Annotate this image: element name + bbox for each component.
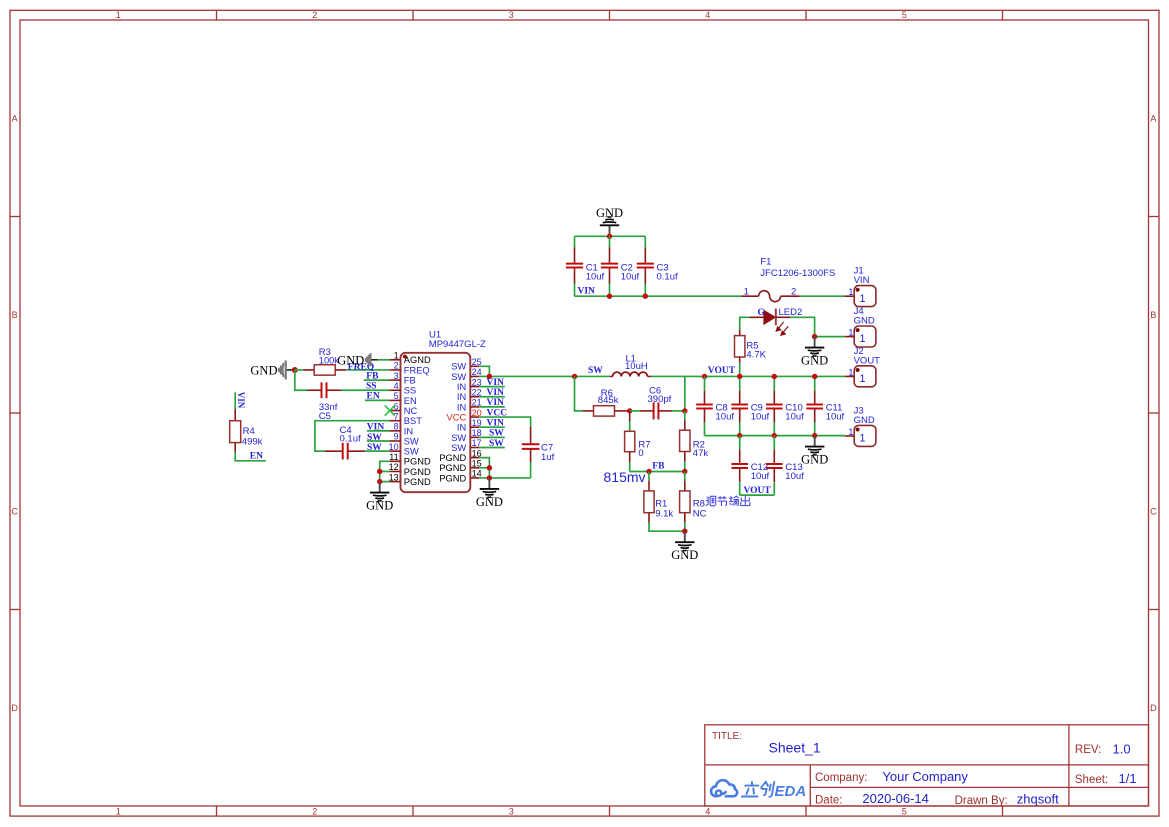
svg-text:390pf: 390pf [648, 394, 672, 405]
svg-text:10uf: 10uf [751, 412, 770, 423]
svg-text:VIN: VIN [487, 388, 505, 398]
svg-text:9.1k: 9.1k [655, 508, 673, 519]
svg-text:4: 4 [705, 10, 710, 20]
svg-text:BST: BST [404, 416, 422, 426]
svg-text:F1: F1 [760, 257, 771, 268]
U1 left pin 11 PGND [390, 460, 401, 462]
svg-text:GND: GND [801, 353, 828, 367]
diode LED2 [750, 316, 764, 318]
resistor R6 branch [575, 376, 584, 410]
svg-text:VIN: VIN [487, 419, 505, 429]
svg-text:SW: SW [451, 372, 466, 382]
svg-text:0.1uf: 0.1uf [657, 271, 678, 282]
svg-text:GND: GND [596, 206, 623, 220]
U1 right pin 24 SW [470, 375, 479, 377]
fuse F1 [741, 295, 758, 297]
svg-text:2: 2 [394, 361, 399, 371]
U1 right pin 20 VCC [470, 416, 479, 418]
svg-text:4: 4 [705, 807, 710, 817]
resistor R2 [684, 411, 686, 420]
wire pin20 VCC to C7 [479, 417, 530, 427]
svg-text:3: 3 [509, 807, 514, 817]
svg-text:PGND: PGND [439, 473, 466, 483]
svg-text:D: D [1150, 703, 1157, 713]
ground flag GND left of R3 [286, 369, 295, 371]
wire pin22 VIN stub [479, 396, 505, 398]
connector J4 [854, 326, 876, 347]
svg-text:REV:: REV: [1075, 744, 1101, 756]
U1 right pin 15 PGND [470, 467, 479, 469]
svg-text:LED2: LED2 [779, 307, 803, 318]
U1 right pin 22 IN [470, 396, 479, 398]
svg-text:VIN: VIN [487, 398, 505, 408]
capacitor C1 [574, 236, 576, 247]
U1 right pin 21 IN [470, 406, 479, 408]
svg-text:VIN: VIN [487, 378, 505, 388]
node LED GND junction [812, 334, 817, 339]
U1 left pin 6 NC [390, 410, 401, 412]
node SW-R6 junction [572, 374, 577, 379]
wire pin18 SW stub [479, 436, 505, 438]
svg-text:815mv: 815mv [604, 469, 646, 485]
U1 right pin 18 SW [470, 436, 479, 438]
connector J2 [854, 366, 876, 387]
U1 left pin 5 EN [390, 399, 401, 401]
ground GND below pin14 [488, 478, 490, 489]
wire SW rail L1 to J2 [651, 375, 845, 377]
node R1-R8 GND junction [682, 529, 687, 534]
svg-text:FREQ: FREQ [404, 365, 430, 375]
svg-text:1: 1 [116, 10, 121, 20]
svg-text:1: 1 [848, 427, 853, 438]
capacitor C12 [739, 436, 741, 450]
ground GND output bank [814, 436, 816, 447]
svg-text:11: 11 [389, 452, 398, 462]
text annotation tiao-jie-shu-chu [706, 496, 716, 506]
node R6-C6-R7 junction [627, 408, 632, 413]
capacitor C5 [295, 370, 307, 390]
U1 right pin 19 IN [470, 426, 479, 428]
svg-text:A: A [12, 113, 18, 123]
U1 left pin 10 SW [390, 450, 401, 452]
svg-text:MP9447GL-Z: MP9447GL-Z [429, 339, 486, 350]
resistor R1 [648, 472, 650, 481]
svg-text:GND: GND [366, 498, 393, 512]
svg-text:EDA: EDA [775, 783, 807, 800]
svg-text:GND: GND [854, 316, 875, 327]
wire pins 11-13 PGND [380, 461, 390, 481]
capacitor C6 [630, 410, 640, 412]
svg-text:FB: FB [652, 461, 665, 471]
wire output GND rail [705, 435, 846, 437]
wire C5 to pin4 SS [341, 389, 390, 391]
svg-text:VOUT: VOUT [854, 355, 881, 366]
wire FB rail [630, 471, 685, 473]
svg-text:EN: EN [250, 452, 263, 462]
node SW rail junction pin25 [487, 374, 492, 379]
svg-text:VCC: VCC [447, 412, 467, 422]
U1 right pin 25 SW [470, 365, 479, 367]
svg-text:SW: SW [588, 366, 603, 376]
U1 left pin 2 FREQ [390, 369, 401, 371]
svg-text:FB: FB [404, 376, 416, 386]
node VOUT label junction [702, 374, 707, 379]
wire C12-C13 bottom VOUT [740, 494, 775, 496]
wire pin19 VIN stub [479, 426, 505, 428]
U1 left pin 12 PGND [390, 470, 401, 472]
svg-text:SS: SS [366, 381, 377, 391]
svg-text:GND: GND [801, 452, 828, 466]
wire pin16 branch [479, 458, 489, 478]
ground GND below pin13 [379, 482, 381, 493]
svg-text:10uf: 10uf [826, 412, 845, 423]
svg-text:SW: SW [489, 429, 504, 439]
svg-text:Company:: Company: [815, 772, 867, 784]
svg-text:GND: GND [337, 353, 364, 367]
svg-text:GND: GND [476, 495, 503, 509]
svg-text:0: 0 [638, 448, 643, 459]
svg-text:0.1uf: 0.1uf [340, 433, 361, 444]
svg-text:1uf: 1uf [541, 452, 555, 463]
svg-text:SW: SW [451, 433, 466, 443]
svg-text:SW: SW [404, 436, 419, 446]
svg-text:PGND: PGND [439, 463, 466, 473]
connector J1 [854, 286, 876, 307]
ground GND top [609, 225, 611, 236]
svg-text:1: 1 [859, 333, 865, 345]
svg-text:SS: SS [404, 386, 416, 396]
svg-text:3: 3 [509, 10, 514, 20]
svg-text:1: 1 [394, 351, 399, 361]
wire C7 bottom to pin14 [479, 477, 530, 479]
svg-text:IN: IN [457, 423, 466, 433]
svg-text:EN: EN [404, 396, 417, 406]
wire pin15 stub link [479, 467, 489, 469]
svg-text:GND: GND [250, 364, 277, 378]
svg-text:TITLE:: TITLE: [712, 731, 742, 742]
U1 right pin 17 SW [470, 447, 479, 449]
svg-text:SW: SW [451, 362, 466, 372]
svg-text:1: 1 [859, 293, 865, 305]
svg-text:47k: 47k [693, 448, 709, 459]
svg-text:D: D [11, 703, 18, 713]
svg-text:4.7K: 4.7K [746, 350, 766, 361]
svg-text:5: 5 [902, 807, 907, 817]
svg-text:GND: GND [854, 415, 875, 426]
no-connect X pin6 [385, 406, 395, 416]
svg-text:13: 13 [389, 472, 399, 482]
node PGND junctions left [377, 469, 382, 474]
resistor R8 [684, 472, 686, 481]
svg-text:1: 1 [116, 807, 121, 817]
wire pin5 EN [365, 399, 390, 401]
svg-text:2020-06-14: 2020-06-14 [862, 791, 929, 806]
node VIN junctions [607, 294, 612, 299]
svg-text:JFC1206-1300FS: JFC1206-1300FS [760, 268, 835, 279]
wire R3 to pin2 FREQ [346, 369, 390, 371]
svg-text:VIN: VIN [236, 392, 246, 409]
svg-text:SW: SW [404, 447, 419, 457]
svg-text:SW: SW [489, 439, 504, 449]
U1 right pin 14 PGND [470, 477, 479, 479]
U1 left pin 13 PGND [390, 481, 401, 483]
svg-text:AGND: AGND [404, 355, 431, 365]
svg-text:12: 12 [389, 462, 399, 472]
svg-text:Sheet:: Sheet: [1075, 774, 1108, 786]
svg-text:IN: IN [404, 426, 413, 436]
svg-text:10uf: 10uf [751, 471, 770, 482]
svg-text:10uH: 10uH [625, 361, 648, 372]
resistor R5 [739, 329, 741, 335]
svg-text:9: 9 [394, 432, 399, 442]
U1 left pin 1 AGND [390, 359, 401, 361]
svg-text:EN: EN [367, 392, 380, 402]
wire VOUT drop to R2 [684, 376, 686, 410]
svg-text:8: 8 [394, 422, 399, 432]
capacitor C11 [814, 376, 816, 390]
svg-text:VCC: VCC [487, 408, 508, 418]
svg-text:Drawn By:: Drawn By: [955, 795, 1008, 807]
U1 right pin 23 IN [470, 386, 479, 388]
svg-text:10uf: 10uf [586, 271, 605, 282]
wire pin23 VIN stub [479, 386, 505, 388]
capacitor C2 [609, 236, 611, 247]
resistor R7 [629, 411, 631, 421]
svg-text:7: 7 [394, 411, 399, 421]
U1 pin1 mark [403, 355, 407, 359]
connector J3 [854, 425, 876, 446]
svg-text:VOUT: VOUT [744, 486, 772, 496]
wire pin3 FB [364, 379, 390, 381]
svg-text:1: 1 [848, 367, 853, 378]
svg-text:A: A [1150, 113, 1156, 123]
capacitor C8 [704, 376, 706, 390]
svg-text:10uf: 10uf [716, 412, 735, 423]
svg-text:4: 4 [394, 381, 399, 391]
svg-text:Your Company: Your Company [882, 769, 968, 784]
svg-text:1/1: 1/1 [1119, 771, 1137, 786]
capacitor C4 BST loop [315, 421, 390, 451]
U1 left pin 7 BST [390, 420, 401, 422]
svg-text:PGND: PGND [404, 477, 431, 487]
svg-text:1: 1 [848, 287, 853, 298]
svg-text:NC: NC [693, 508, 707, 519]
svg-text:Date:: Date: [815, 794, 843, 806]
svg-text:SW: SW [367, 443, 382, 453]
ground GND below R1 R8 [684, 531, 686, 542]
svg-text:VIN: VIN [578, 287, 596, 297]
inductor L1 [610, 375, 613, 377]
U1 left pin 8 IN [390, 430, 401, 432]
logo lceda [711, 780, 737, 796]
title block [705, 725, 1149, 806]
ground GND near J4 [814, 337, 816, 348]
svg-text:845k: 845k [598, 395, 619, 406]
svg-text:IN: IN [457, 392, 466, 402]
capacitor C10 [773, 376, 775, 390]
svg-text:VOUT: VOUT [708, 366, 736, 376]
svg-text:2: 2 [312, 10, 317, 20]
ground flag GND at pin1 [378, 359, 390, 361]
svg-text:C: C [1150, 506, 1157, 516]
svg-text:5: 5 [394, 391, 399, 401]
node C6-R2 junction [682, 408, 687, 413]
svg-text:499k: 499k [242, 436, 263, 447]
svg-text:B: B [1150, 310, 1156, 320]
resistor R3 [295, 369, 304, 371]
svg-text:2: 2 [791, 287, 796, 298]
U1 left pin 9 SW [390, 440, 401, 442]
capacitor C9 [739, 376, 741, 390]
svg-text:IN: IN [457, 402, 466, 412]
svg-text:10uf: 10uf [785, 471, 804, 482]
svg-text:G: G [758, 308, 766, 318]
svg-text:PGND: PGND [404, 457, 431, 467]
wire LED cathode to corner [790, 317, 815, 336]
svg-text:C: C [11, 506, 18, 516]
U1 right pin 16 PGND [470, 457, 479, 459]
svg-text:1: 1 [859, 373, 865, 385]
svg-text:NC: NC [404, 406, 418, 416]
U1 left pin 4 SS [390, 389, 401, 391]
wire pin17 SW stub [479, 447, 505, 449]
svg-text:10: 10 [389, 442, 399, 452]
svg-text:10uf: 10uf [785, 412, 804, 423]
svg-text:3: 3 [394, 371, 399, 381]
svg-text:PGND: PGND [404, 467, 431, 477]
svg-text:FB: FB [366, 371, 379, 381]
svg-text:2: 2 [312, 807, 317, 817]
svg-text:10uf: 10uf [621, 271, 640, 282]
svg-text:B: B [12, 310, 18, 320]
capacitor C3 [644, 236, 646, 247]
capacitor C13 [773, 436, 775, 450]
svg-text:zhqsoft: zhqsoft [1017, 792, 1059, 807]
svg-text:1.0: 1.0 [1113, 742, 1131, 757]
wire VIN bottom rail [575, 295, 742, 297]
svg-text:1: 1 [744, 287, 749, 298]
node top rail junction [607, 234, 612, 239]
wire GND J4 row [815, 336, 845, 338]
svg-text:Sheet_1: Sheet_1 [769, 739, 821, 755]
node R3 left junction [292, 367, 298, 373]
node SW rail cap junctions [737, 374, 742, 379]
svg-text:SW: SW [451, 443, 466, 453]
wire SW rail pin24 to L1 [479, 375, 610, 377]
U1 left pin 3 FB [390, 379, 401, 381]
svg-text:5: 5 [902, 10, 907, 20]
node PGND junctions right [487, 465, 492, 470]
wire LED branch [740, 317, 758, 329]
svg-text:1: 1 [859, 433, 865, 445]
svg-text:GND: GND [671, 548, 698, 562]
node GND rail junctions [737, 433, 742, 438]
node FB junctions [646, 469, 651, 474]
svg-text:1: 1 [848, 328, 853, 339]
wire pin25 to rail [479, 366, 489, 376]
svg-text:PGND: PGND [439, 453, 466, 463]
svg-text:VIN: VIN [854, 275, 870, 286]
wire pin21 VIN stub [479, 406, 505, 408]
op-amp U1 MP9447GL-Z body [401, 353, 471, 492]
capacitor C7 [530, 427, 532, 444]
wire fuse to J1 [800, 295, 845, 297]
svg-text:IN: IN [457, 382, 466, 392]
wire VIN top rail [575, 235, 646, 237]
